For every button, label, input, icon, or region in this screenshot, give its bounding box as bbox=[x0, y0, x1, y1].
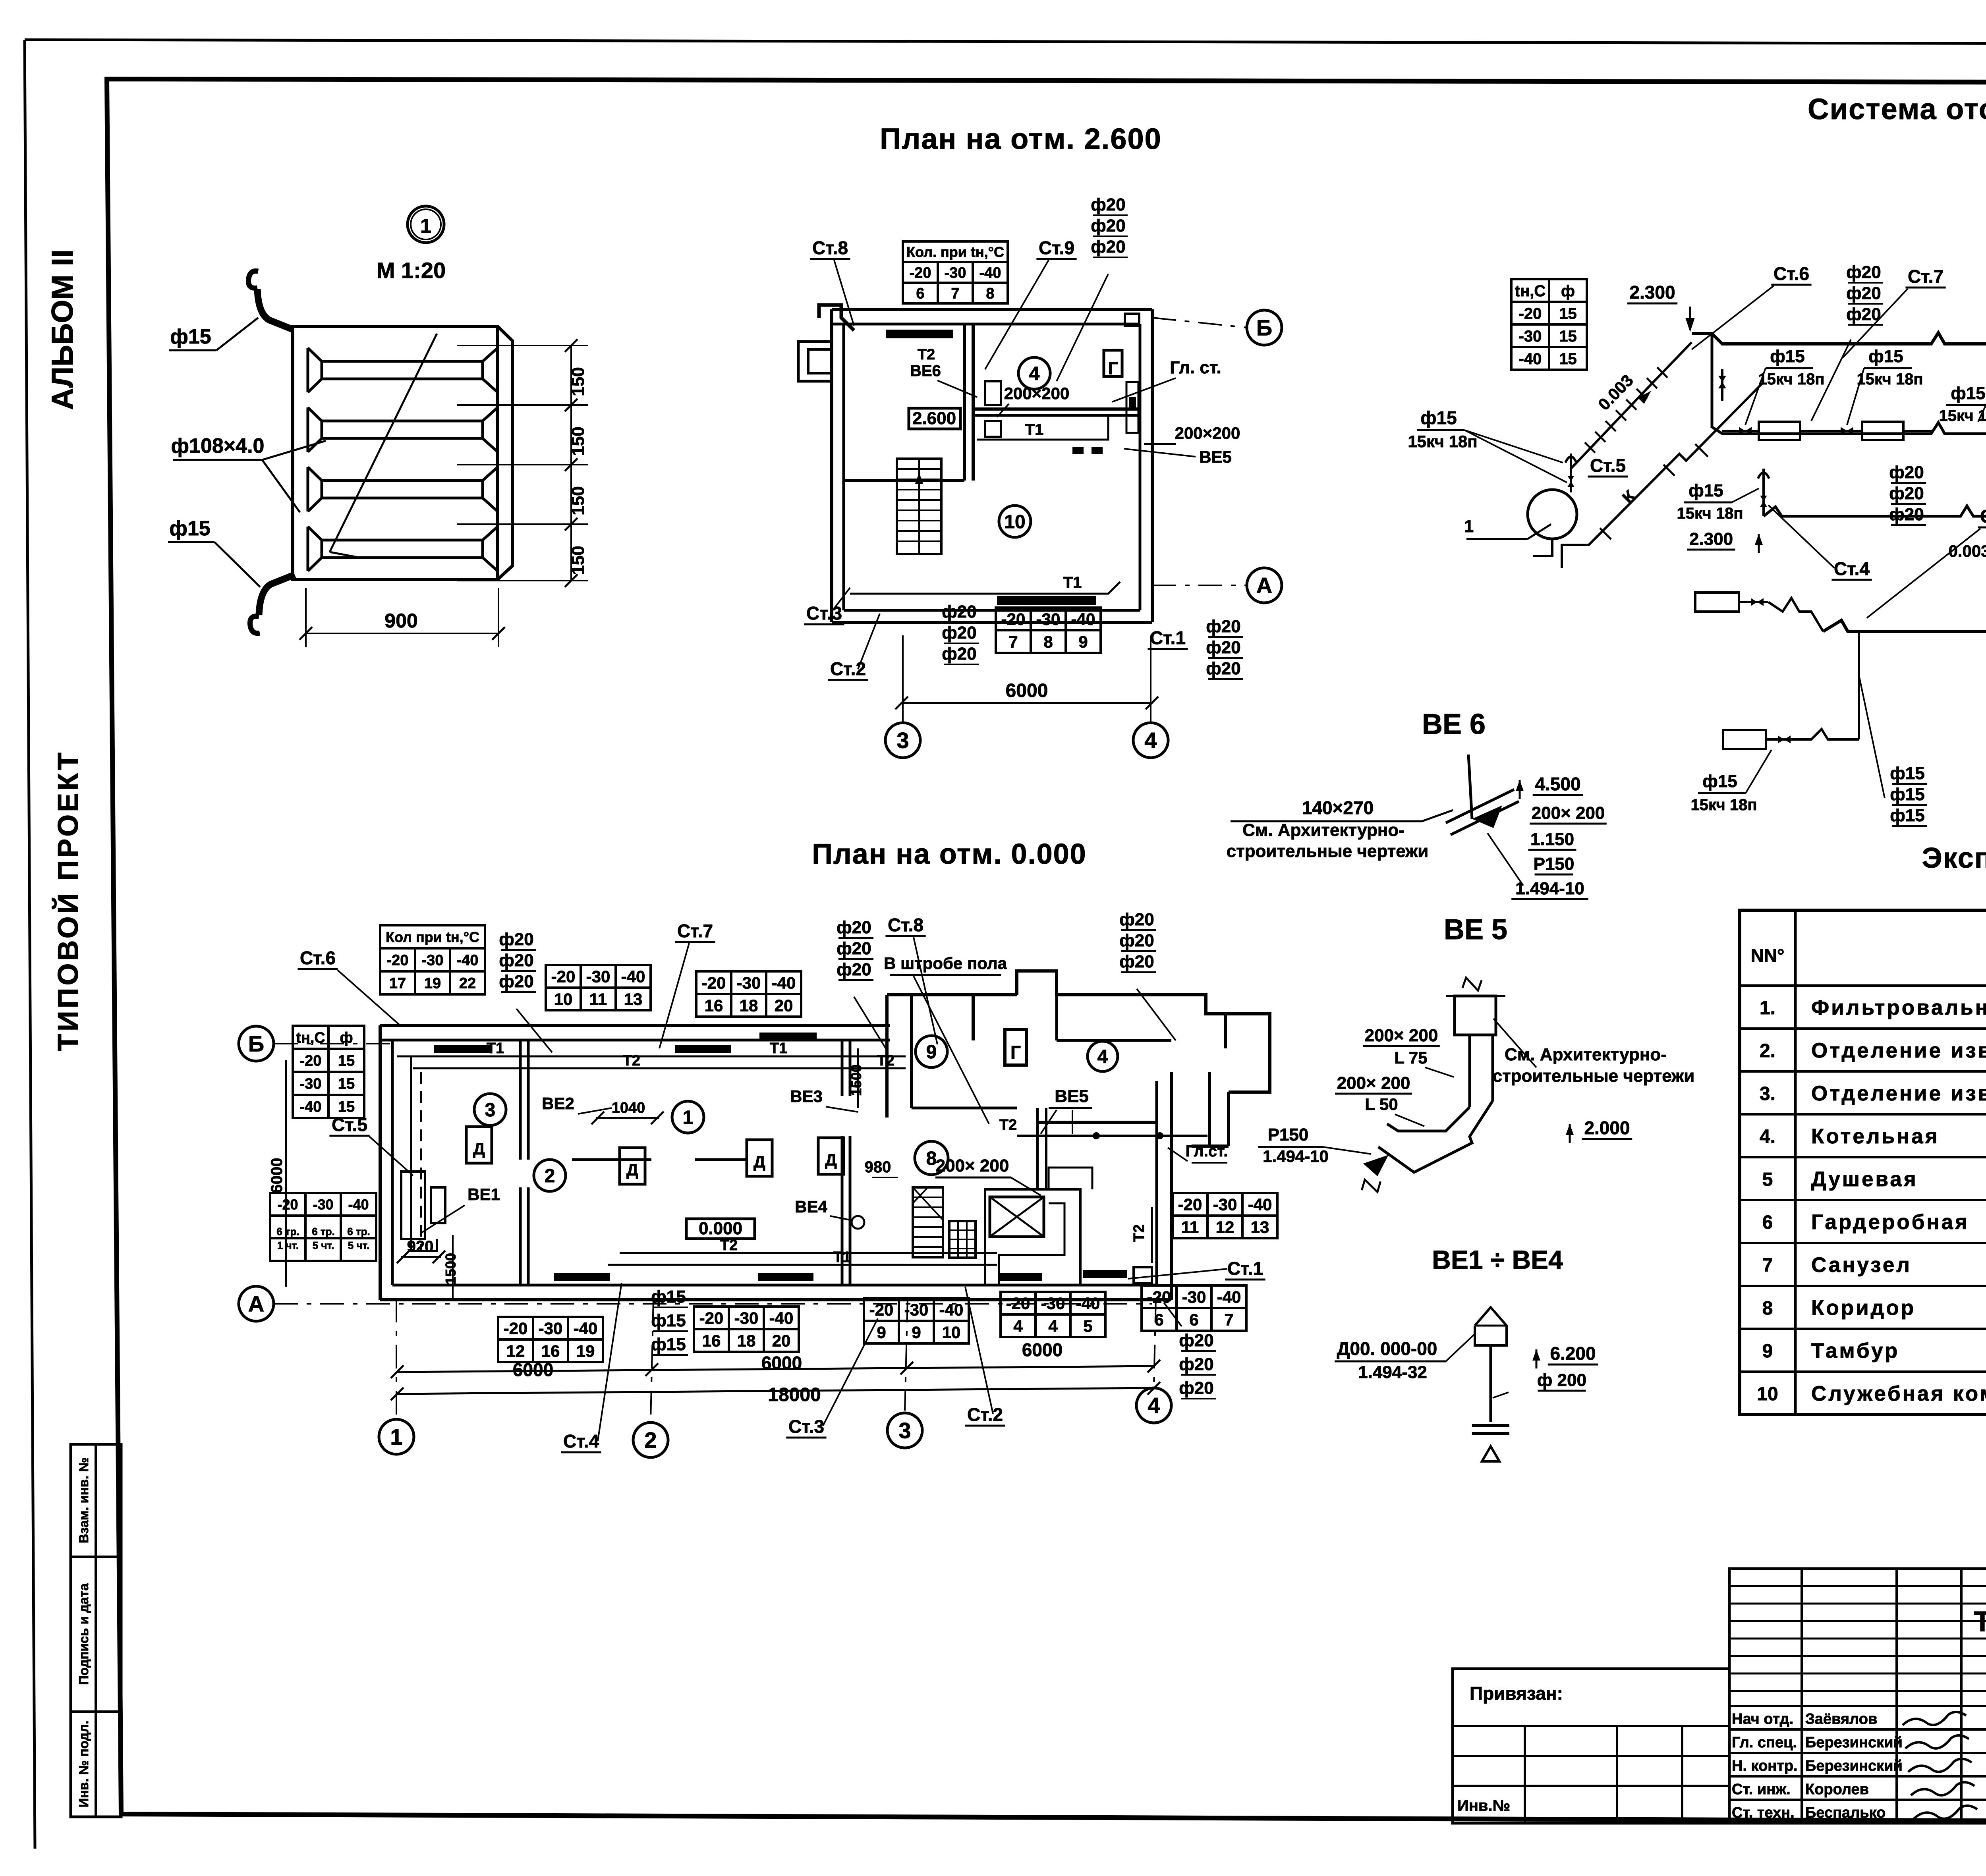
svg-text:8: 8 bbox=[1762, 1298, 1773, 1319]
plan0 radiator bars top wall bbox=[434, 1045, 490, 1053]
svg-text:ф20: ф20 bbox=[837, 960, 871, 979]
svg-text:-30: -30 bbox=[734, 1309, 759, 1328]
svg-text:Т1: Т1 bbox=[1025, 421, 1044, 438]
svg-text:Ст.7: Ст.7 bbox=[677, 921, 713, 941]
svg-text:5 чт.: 5 чт. bbox=[313, 1239, 334, 1251]
svg-text:Р150: Р150 bbox=[1534, 854, 1575, 874]
svg-text:8: 8 bbox=[986, 286, 994, 302]
plan2600 radiator bar top bbox=[886, 330, 953, 338]
plan0 partition x2120 vestibule bbox=[841, 1040, 844, 1096]
svg-text:Т2: Т2 bbox=[1131, 1224, 1148, 1242]
plan2600 axis circle 4 bottom bbox=[1133, 723, 1168, 758]
svg-text:Ст. инж.: Ст. инж. bbox=[1732, 1781, 1791, 1798]
svg-text:Привязан:: Привязан: bbox=[1470, 1683, 1563, 1704]
svg-text:Котельная: Котельная bbox=[1811, 1125, 1940, 1148]
svg-text:строительные чертежи: строительные чертежи bbox=[1227, 841, 1429, 861]
plan0 partition x1310 bbox=[519, 1040, 522, 1160]
svg-text:Санузел: Санузел bbox=[1811, 1253, 1912, 1277]
svg-text:ф20: ф20 bbox=[499, 930, 533, 949]
plan0 table kol pri tn top bbox=[380, 925, 485, 994]
scheme upper tier radiator 1 bbox=[1759, 422, 1800, 440]
svg-text:-30: -30 bbox=[1041, 1294, 1065, 1313]
svg-text:Березинский: Березинский bbox=[1805, 1734, 1903, 1751]
svg-text:L 50: L 50 bbox=[1365, 1095, 1398, 1114]
plan0 annex bottom wall bbox=[1037, 1121, 1157, 1124]
svg-text:Гл. ст.: Гл. ст. bbox=[1170, 358, 1221, 377]
svg-text:Ст.8: Ст.8 bbox=[888, 915, 923, 935]
svg-text:ВЕ 5: ВЕ 5 bbox=[1444, 914, 1507, 946]
svg-text:6: 6 bbox=[916, 286, 924, 302]
svg-text:ф15: ф15 bbox=[1890, 785, 1924, 804]
svg-text:1: 1 bbox=[390, 1424, 402, 1449]
plan0 table left bottom 3x3 bbox=[270, 1193, 376, 1261]
svg-text:ф20: ф20 bbox=[1119, 952, 1154, 971]
scheme St5 riser bbox=[1570, 454, 1572, 492]
svg-text:1.150: 1.150 bbox=[1530, 830, 1574, 849]
svg-text:5: 5 bbox=[1762, 1169, 1773, 1190]
svg-text:Ст.4: Ст.4 bbox=[1834, 558, 1870, 579]
svg-text:18: 18 bbox=[737, 1332, 756, 1350]
scheme upper tier stub lines bbox=[1800, 430, 1832, 432]
plan0 room circle 1 bbox=[672, 1101, 704, 1133]
plan0 annex portal bump bbox=[1225, 1014, 1270, 1092]
svg-text:ф20: ф20 bbox=[499, 951, 533, 970]
svg-text:200× 200: 200× 200 bbox=[936, 1156, 1009, 1175]
scheme left expansion diagonal bbox=[1571, 342, 1692, 469]
svg-text:15: 15 bbox=[1559, 350, 1577, 368]
svg-text:12: 12 bbox=[1216, 1218, 1234, 1237]
plan2600 inner partition vertical bbox=[963, 324, 966, 481]
svg-text:10: 10 bbox=[942, 1323, 961, 1342]
scheme riser St6 valve bbox=[1721, 369, 1723, 401]
svg-text:tн,С: tн,С bbox=[296, 1030, 325, 1046]
svg-text:См. Архитектурно-: См. Архитектурно- bbox=[1242, 820, 1404, 840]
plan0 room8 riser pair bbox=[1036, 1108, 1039, 1189]
scheme table tn-f bbox=[1511, 279, 1587, 370]
svg-text:-30: -30 bbox=[737, 974, 761, 992]
titleblock staff column table bbox=[1729, 1569, 1986, 1823]
plan0 table bottom b2 bbox=[864, 1298, 969, 1343]
svg-text:Т2: Т2 bbox=[623, 1052, 640, 1069]
svg-text:6 тр.: 6 тр. bbox=[347, 1226, 370, 1237]
svg-text:2: 2 bbox=[545, 1166, 555, 1187]
svg-text:Т1: Т1 bbox=[770, 1040, 787, 1057]
svg-text:4: 4 bbox=[1048, 1317, 1058, 1336]
scheme pump circle bbox=[1528, 490, 1577, 539]
svg-text:ВЕ2: ВЕ2 bbox=[542, 1094, 574, 1113]
svg-text:15: 15 bbox=[338, 1099, 355, 1116]
svg-text:6 тр.: 6 тр. bbox=[276, 1226, 299, 1237]
svg-text:ф20: ф20 bbox=[1119, 910, 1154, 929]
svg-text:140×270: 140×270 bbox=[1302, 797, 1374, 818]
svg-text:11: 11 bbox=[1181, 1218, 1199, 1237]
svg-text:4: 4 bbox=[1097, 1046, 1108, 1067]
svg-text:Инв. № подл.: Инв. № подл. bbox=[76, 1721, 91, 1808]
scheme bottom radiator 1 bbox=[1723, 730, 1766, 749]
svg-text:Кол. при tн,°С: Кол. при tн,°С bbox=[906, 244, 1004, 260]
plan2600 room circle 4 bbox=[1018, 357, 1050, 389]
svg-text:200×200: 200×200 bbox=[1175, 424, 1240, 442]
plan2600 table bottom bbox=[996, 608, 1101, 653]
ve5 end flag arrow bbox=[1363, 1155, 1389, 1176]
svg-text:АЛЬБОМ II: АЛЬБОМ II bbox=[46, 249, 79, 410]
plan0 annex room4 outline bbox=[1017, 971, 1225, 1014]
svg-text:Т1: Т1 bbox=[833, 1249, 851, 1266]
svg-text:10: 10 bbox=[1757, 1384, 1778, 1405]
svg-text:16: 16 bbox=[541, 1342, 560, 1361]
svg-text:ф20: ф20 bbox=[1091, 216, 1125, 235]
svg-text:-30: -30 bbox=[422, 952, 444, 969]
svg-text:ф15: ф15 bbox=[1688, 481, 1723, 500]
svg-text:Д: Д bbox=[626, 1160, 638, 1179]
svg-text:Д: Д bbox=[753, 1152, 765, 1171]
svg-text:ф15: ф15 bbox=[651, 1311, 686, 1330]
svg-text:ф15: ф15 bbox=[1702, 772, 1737, 791]
ve14 vertical pipe bbox=[1489, 1345, 1492, 1422]
svg-text:Система отопления.: Система отопления. bbox=[1808, 93, 1986, 125]
svg-text:20: 20 bbox=[775, 996, 793, 1015]
svg-text:15: 15 bbox=[1559, 328, 1577, 345]
explication table grid bbox=[1740, 910, 1986, 1415]
plan0 left riser column bbox=[410, 1056, 412, 1251]
svg-text:ф15: ф15 bbox=[1868, 347, 1903, 366]
svg-text:ВЕ4: ВЕ4 bbox=[795, 1197, 827, 1216]
svg-text:0.000: 0.000 bbox=[699, 1219, 742, 1238]
svg-text:Ст.5: Ст.5 bbox=[1590, 455, 1626, 476]
plan2600 radiator bar bottom bbox=[997, 596, 1096, 605]
svg-text:6: 6 bbox=[1154, 1310, 1163, 1329]
svg-text:ВЕ3: ВЕ3 bbox=[790, 1087, 823, 1106]
svg-text:Нач отд.: Нач отд. bbox=[1732, 1711, 1793, 1727]
svg-text:4: 4 bbox=[1148, 1393, 1160, 1418]
scheme K diagonal line bbox=[1562, 382, 1764, 568]
svg-text:6: 6 bbox=[1189, 1310, 1198, 1329]
register body outline bbox=[293, 326, 512, 579]
plan0 table bottom b4 bbox=[1142, 1285, 1246, 1331]
plan0 annex inner wall bbox=[1055, 995, 1058, 1040]
svg-text:Королев: Королев bbox=[1805, 1781, 1869, 1798]
scheme riser St4 bbox=[1762, 469, 1765, 516]
svg-text:Т2: Т2 bbox=[918, 346, 935, 363]
svg-text:11: 11 bbox=[589, 990, 607, 1009]
svg-text:Ст.2: Ст.2 bbox=[967, 1404, 1003, 1425]
svg-text:Ст.3: Ст.3 bbox=[788, 1416, 824, 1437]
svg-text:Гардеробная: Гардеробная bbox=[1811, 1210, 1969, 1234]
svg-text:-40: -40 bbox=[1076, 1294, 1100, 1313]
plan2600 level box 2.600 bbox=[909, 408, 960, 429]
plan2600 axis circle 3 bottom bbox=[885, 723, 920, 758]
svg-text:-40: -40 bbox=[1217, 1288, 1241, 1307]
svg-text:-20: -20 bbox=[910, 265, 931, 282]
plan2600 pipe hook exiting top-left bbox=[819, 305, 854, 330]
svg-text:6000: 6000 bbox=[1022, 1339, 1063, 1360]
svg-text:Экспликация помещений.: Экспликация помещений. bbox=[1922, 842, 1986, 874]
plan0 table bottom left bbox=[498, 1317, 603, 1362]
plan0 axis B circle bbox=[239, 1026, 274, 1061]
svg-text:-40: -40 bbox=[457, 952, 479, 969]
svg-text:ВЕ1 ÷ ВЕ4: ВЕ1 ÷ ВЕ4 bbox=[1432, 1245, 1563, 1274]
detail140 label 4.500 bbox=[1519, 780, 1521, 799]
svg-text:1.: 1. bbox=[1760, 998, 1775, 1019]
plan0 axis bottom circle 4 bbox=[1136, 1388, 1171, 1423]
svg-text:-20: -20 bbox=[300, 1053, 322, 1069]
svg-text:-40: -40 bbox=[769, 1309, 794, 1328]
svg-text:2.300: 2.300 bbox=[1629, 282, 1675, 303]
plan0 table top2 bbox=[546, 965, 651, 1010]
svg-text:-20: -20 bbox=[702, 974, 726, 992]
svg-text:Д00. 000-00: Д00. 000-00 bbox=[1337, 1338, 1437, 1359]
svg-text:200× 200: 200× 200 bbox=[1337, 1073, 1410, 1093]
svg-text:ф20: ф20 bbox=[942, 644, 976, 664]
svg-text:ВЕ6: ВЕ6 bbox=[910, 362, 941, 380]
plan0 bottom dim line first 6000 row bbox=[397, 1366, 1154, 1372]
svg-text:8: 8 bbox=[926, 1148, 937, 1169]
svg-text:Взам. инв. №: Взам. инв. № bbox=[76, 1457, 91, 1544]
plan0 tambur room9 walls bbox=[885, 995, 889, 1117]
svg-text:-30: -30 bbox=[1213, 1195, 1237, 1214]
svg-text:Отделение извести: Отделение извести bbox=[1811, 1082, 1986, 1105]
svg-text:6000: 6000 bbox=[268, 1158, 286, 1193]
svg-text:Ст.8: Ст.8 bbox=[812, 237, 848, 258]
svg-text:1: 1 bbox=[1464, 517, 1474, 536]
plan0 room8 pipe loop inner bbox=[999, 1203, 1064, 1284]
svg-text:13: 13 bbox=[1251, 1218, 1269, 1237]
svg-text:ВЕ5: ВЕ5 bbox=[1199, 448, 1232, 466]
plan0 partition room2 horizontal bbox=[572, 1158, 651, 1161]
svg-text:ф20: ф20 bbox=[1889, 484, 1924, 503]
scheme st5 bottom radiator assembly bbox=[1695, 593, 1739, 612]
svg-text:1500: 1500 bbox=[442, 1253, 459, 1285]
dimension 900 bottom bbox=[306, 633, 498, 634]
svg-text:9: 9 bbox=[912, 1323, 921, 1342]
svg-text:15кч 18п: 15кч 18п bbox=[1408, 432, 1477, 451]
svg-text:ф20: ф20 bbox=[1206, 638, 1240, 657]
svg-text:Т2: Т2 bbox=[999, 1117, 1017, 1133]
titleblock privyazan box bbox=[1453, 1669, 1729, 1823]
svg-text:6000: 6000 bbox=[761, 1353, 802, 1373]
svg-text:-30: -30 bbox=[586, 967, 610, 986]
plan0 corridor stair bbox=[913, 1187, 943, 1257]
svg-text:15кч 18п: 15кч 18п bbox=[1857, 371, 1923, 388]
svg-text:А: А bbox=[248, 1291, 264, 1316]
svg-text:ф20: ф20 bbox=[1889, 505, 1924, 524]
svg-text:ф15: ф15 bbox=[1890, 764, 1924, 783]
svg-text:ф20: ф20 bbox=[1179, 1378, 1213, 1398]
svg-text:ф: ф bbox=[1561, 282, 1575, 300]
svg-text:ф20: ф20 bbox=[1091, 195, 1125, 214]
svg-text:7: 7 bbox=[1224, 1310, 1233, 1329]
svg-text:ф20: ф20 bbox=[1119, 931, 1154, 950]
svg-text:15кч 18п: 15кч 18п bbox=[1677, 505, 1743, 522]
svg-text:Фильтровальный зал: Фильтровальный зал bbox=[1811, 996, 1986, 1019]
svg-text:4: 4 bbox=[1029, 363, 1040, 384]
svg-text:ф15: ф15 bbox=[1951, 384, 1985, 403]
svg-text:4.: 4. bbox=[1760, 1126, 1775, 1147]
svg-text:9: 9 bbox=[926, 1042, 937, 1063]
svg-text:-20: -20 bbox=[1006, 1294, 1030, 1313]
svg-text:18000: 18000 bbox=[768, 1384, 821, 1405]
svg-text:-20: -20 bbox=[1001, 610, 1026, 629]
plan0 room circle 2 bbox=[534, 1160, 566, 1191]
svg-text:1.494-10: 1.494-10 bbox=[1515, 879, 1584, 898]
plan0 table top3 bbox=[696, 971, 801, 1017]
plan0 table tn-f left bbox=[293, 1026, 364, 1118]
svg-text:-40: -40 bbox=[621, 967, 645, 986]
svg-text:4.500: 4.500 bbox=[1535, 774, 1580, 794]
svg-text:9: 9 bbox=[1078, 633, 1088, 651]
svg-text:ТИПОВОЙ ПРОЕКТ: ТИПОВОЙ ПРОЕКТ bbox=[52, 750, 84, 1051]
svg-text:Т1: Т1 bbox=[487, 1040, 504, 1057]
svg-text:8: 8 bbox=[1043, 633, 1053, 651]
plan2600 entrance annex top-left bbox=[798, 342, 832, 381]
svg-text:Ст.9: Ст.9 bbox=[1039, 237, 1074, 258]
svg-text:16: 16 bbox=[702, 1332, 721, 1350]
svg-text:ф20: ф20 bbox=[1206, 617, 1240, 636]
plan2600 small box top right bbox=[1125, 314, 1139, 326]
svg-text:3: 3 bbox=[898, 1418, 911, 1443]
svg-text:1 чт.: 1 чт. bbox=[277, 1239, 299, 1251]
svg-text:ф20: ф20 bbox=[837, 918, 871, 937]
svg-text:-30: -30 bbox=[300, 1076, 322, 1092]
svg-text:980: 980 bbox=[865, 1158, 891, 1176]
svg-text:20: 20 bbox=[772, 1332, 791, 1350]
svg-text:4: 4 bbox=[1013, 1317, 1023, 1336]
plan2600 small marks pipe bottom bbox=[1072, 447, 1084, 454]
svg-text:200× 200: 200× 200 bbox=[1365, 1026, 1438, 1045]
plan2600 outer walls bbox=[832, 308, 1152, 311]
plan0 axis bottom circle 2 bbox=[633, 1422, 668, 1457]
svg-text:Р150: Р150 bbox=[1268, 1125, 1309, 1145]
plan2600 pipe T1 run room4 bbox=[977, 415, 1108, 440]
svg-text:Н. контр.: Н. контр. bbox=[1732, 1758, 1798, 1774]
svg-text:Ст.3: Ст.3 bbox=[1980, 506, 1986, 527]
svg-text:ф15: ф15 bbox=[1890, 806, 1924, 825]
svg-text:Т1: Т1 bbox=[1063, 574, 1082, 591]
svg-text:15: 15 bbox=[1559, 305, 1577, 322]
svg-text:1500: 1500 bbox=[848, 1064, 864, 1096]
svg-text:2.300: 2.300 bbox=[1689, 529, 1733, 549]
svg-text:-20: -20 bbox=[1147, 1288, 1171, 1307]
plan2600 dim 6000 bbox=[902, 702, 1152, 704]
plan0 table bottom b1 bbox=[694, 1307, 799, 1352]
svg-text:10: 10 bbox=[1004, 511, 1025, 533]
plan2600 partition room4 bbox=[973, 407, 1140, 411]
svg-text:13: 13 bbox=[624, 990, 643, 1009]
plan0 room8 pipe loop outer bbox=[985, 1189, 1080, 1284]
svg-text:2.: 2. bbox=[1760, 1040, 1775, 1062]
svg-text:-30: -30 bbox=[904, 1301, 929, 1319]
ve5 label 2.000 bbox=[1569, 1124, 1571, 1143]
plan2600 axis A circle bbox=[1247, 568, 1282, 603]
svg-text:3: 3 bbox=[896, 728, 909, 753]
plan0 axis A circle bbox=[239, 1286, 274, 1321]
svg-text:ф15: ф15 bbox=[651, 1287, 686, 1307]
svg-text:Б: Б bbox=[248, 1031, 264, 1056]
register left vertical edges bbox=[291, 326, 294, 579]
svg-text:Подпись и дата: Подпись и дата bbox=[76, 1583, 91, 1685]
svg-text:-40: -40 bbox=[1248, 1195, 1272, 1214]
plan0 axis bottom circle 3 bbox=[887, 1413, 922, 1448]
svg-text:-40: -40 bbox=[1071, 610, 1095, 629]
svg-text:-30: -30 bbox=[1519, 328, 1542, 345]
svg-text:19: 19 bbox=[424, 975, 441, 992]
svg-text:ф20: ф20 bbox=[837, 939, 871, 958]
svg-text:Инв.№: Инв.№ bbox=[1457, 1797, 1510, 1814]
plan2600 duct 200x200 room4 bbox=[985, 381, 1001, 405]
left margin bottom strip box bbox=[71, 1444, 121, 1817]
svg-text:ф 200: ф 200 bbox=[1537, 1370, 1586, 1390]
svg-text:Ст.1: Ст.1 bbox=[1227, 1258, 1263, 1279]
plan0 table right 11 12 13 bbox=[1173, 1193, 1277, 1238]
svg-text:1.494-10: 1.494-10 bbox=[1263, 1147, 1329, 1166]
svg-text:ф15: ф15 bbox=[170, 325, 211, 348]
sheet outer border left line bbox=[25, 40, 35, 1849]
svg-text:-30: -30 bbox=[1036, 610, 1061, 629]
svg-text:Ст. техн.: Ст. техн. bbox=[1732, 1805, 1795, 1821]
plan0 radiator bars bottom wall bbox=[554, 1273, 610, 1281]
return pipe elbow bottom bbox=[250, 616, 260, 633]
detail140 vent symbol bbox=[1468, 755, 1472, 819]
svg-text:-40: -40 bbox=[939, 1301, 964, 1319]
scheme lower return pipe bbox=[1823, 620, 1986, 631]
svg-text:ВЕ5: ВЕ5 bbox=[1055, 1087, 1089, 1106]
plan0 D symbols bbox=[466, 1127, 492, 1163]
svg-text:-40: -40 bbox=[1519, 350, 1542, 368]
svg-text:Березинский: Березинский bbox=[1805, 1758, 1903, 1774]
sheet outer border top line bbox=[25, 40, 1986, 44]
plan0 dim 1040 bbox=[596, 1117, 659, 1119]
plan2600 room circle 10 bbox=[999, 506, 1031, 537]
svg-text:2.000: 2.000 bbox=[1584, 1117, 1630, 1138]
svg-text:строительные чертежи: строительные чертежи bbox=[1493, 1066, 1695, 1086]
svg-text:18: 18 bbox=[740, 996, 758, 1015]
plan2600 small box G bbox=[1104, 350, 1122, 376]
svg-text:1: 1 bbox=[683, 1107, 694, 1128]
svg-text:-30: -30 bbox=[539, 1319, 563, 1338]
svg-text:tн,С: tн,С bbox=[1515, 282, 1546, 300]
plan0 T1 T2 pipes along bottom bbox=[608, 1264, 997, 1266]
svg-text:5: 5 bbox=[1083, 1317, 1092, 1336]
plan2600 table kol pri tn bbox=[903, 241, 1008, 303]
svg-text:Г: Г bbox=[1108, 359, 1118, 378]
svg-text:-20: -20 bbox=[504, 1319, 528, 1338]
register diagonal leader line bbox=[330, 334, 437, 552]
svg-text:Служебная комната: Служебная комната bbox=[1811, 1382, 1986, 1405]
svg-text:Душевая: Душевая bbox=[1811, 1168, 1918, 1191]
svg-text:1040: 1040 bbox=[612, 1100, 645, 1116]
svg-text:В штробе пола: В штробе пола bbox=[884, 954, 1007, 973]
scheme pump inlet piping bbox=[1533, 539, 1552, 556]
svg-text:М 1:20: М 1:20 bbox=[377, 258, 446, 283]
plan0 dim 18000 bbox=[397, 1388, 1154, 1394]
svg-text:ф20: ф20 bbox=[1846, 305, 1881, 324]
svg-text:ф15: ф15 bbox=[1420, 407, 1457, 428]
svg-text:15: 15 bbox=[338, 1076, 355, 1092]
svg-text:ВЕ1: ВЕ1 bbox=[468, 1185, 500, 1204]
svg-text:17: 17 bbox=[389, 975, 406, 992]
ve14 base plates bbox=[1472, 1424, 1509, 1427]
plan2600 pipe run along bottom bbox=[850, 582, 1120, 594]
plan0 room circle 4 annex bbox=[1088, 1041, 1118, 1071]
svg-text:-40: -40 bbox=[300, 1099, 322, 1116]
svg-text:-30: -30 bbox=[945, 265, 966, 282]
svg-text:-40: -40 bbox=[979, 265, 1001, 282]
svg-text:ф15: ф15 bbox=[1770, 347, 1804, 366]
ve5 duct vertical double line bbox=[1468, 1035, 1471, 1107]
svg-text:Беспалько: Беспалько bbox=[1805, 1805, 1886, 1821]
scheme bottom riser drops bbox=[1858, 631, 1860, 739]
plan0 T1 T2 pipes along top bbox=[397, 1056, 906, 1058]
